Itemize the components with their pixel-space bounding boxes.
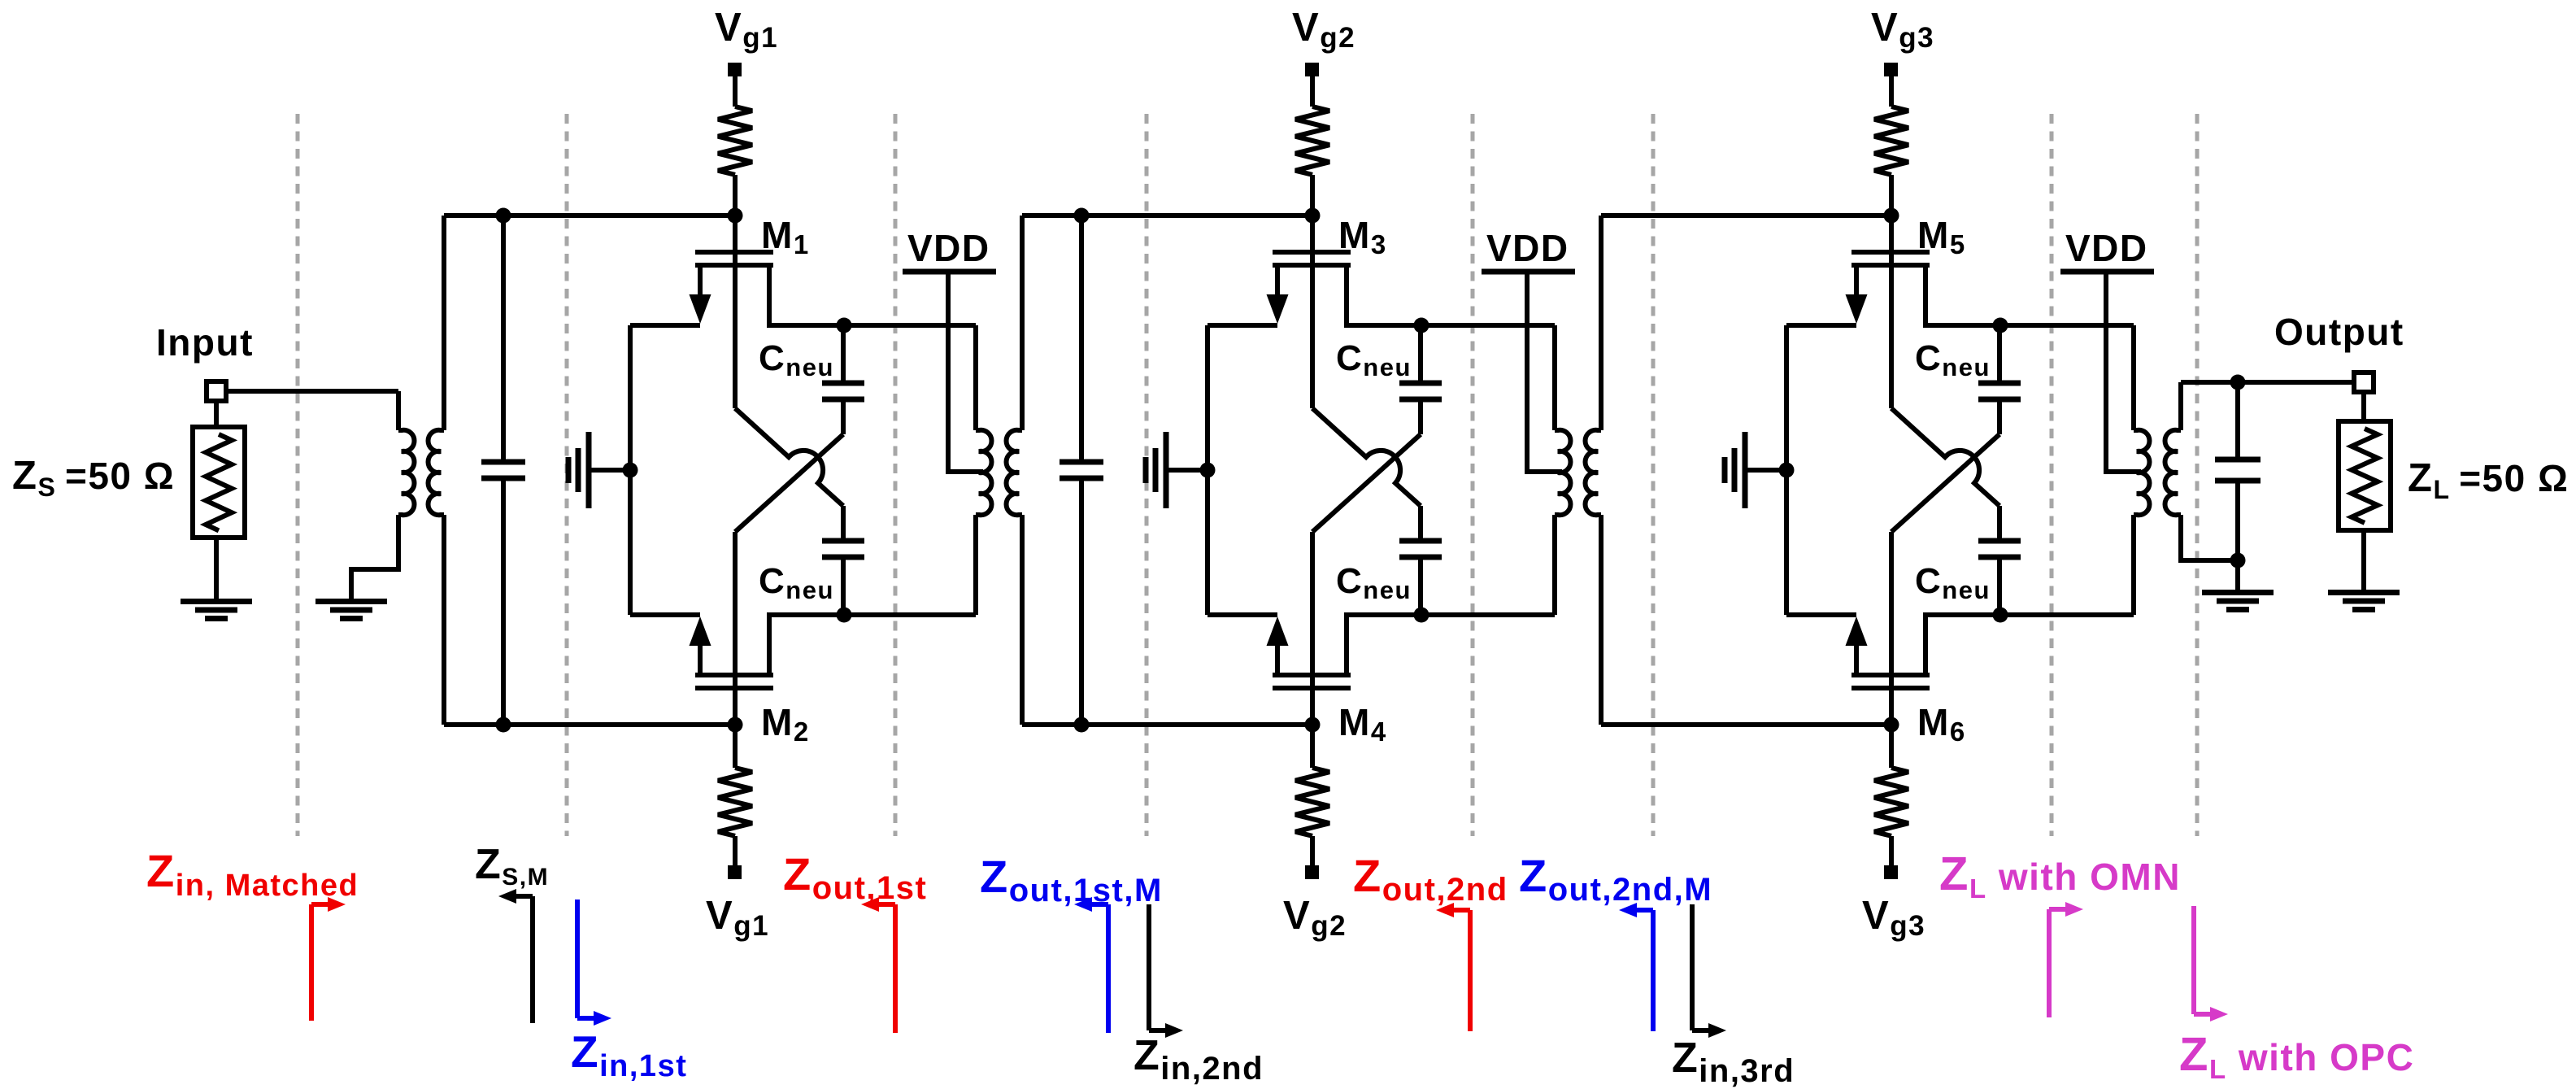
gate rail top stage 1 xyxy=(444,213,735,218)
Cneu top lower lead xyxy=(1418,399,1423,434)
wire Vg3 to resistor xyxy=(1889,76,1894,107)
transistor M3 gate line xyxy=(1310,216,1315,408)
Vg2 bottom terminal xyxy=(1305,865,1319,879)
gate rail bottom stage 2 xyxy=(444,722,735,727)
Vg2 top terminal xyxy=(1305,63,1319,76)
Vg1 top terminal xyxy=(728,63,742,76)
wire resistor to Vg1 bottom terminal xyxy=(733,836,738,865)
common source line stage 1/2 xyxy=(628,325,633,615)
transistor M6 source wire xyxy=(1786,612,1856,617)
transistor M6 drain stub xyxy=(1925,615,2000,675)
node source stage 1/2 xyxy=(623,463,638,478)
node gate bottom stage 2 xyxy=(728,717,743,733)
wire to AC ground xyxy=(1747,468,1786,473)
svg-text:VDD: VDD xyxy=(907,227,990,269)
arrow Zin,Matched xyxy=(309,904,314,1021)
gate bias resistor bottom xyxy=(1295,768,1329,836)
Cneu top feed xyxy=(1997,325,2002,383)
transistor M3 gate bar xyxy=(1273,250,1351,255)
arrow ZL with OMN xyxy=(2047,909,2052,1017)
transistor M5 drain stub xyxy=(1925,265,2000,325)
transistor M3 drain stub xyxy=(1347,265,1421,325)
Cneu bottom feed xyxy=(841,557,846,615)
ground below output cap xyxy=(2202,590,2274,595)
VDD bar xyxy=(903,269,996,275)
common source line stage 3/4 xyxy=(1205,325,1210,615)
common source line stage 5/6 xyxy=(1784,325,1789,615)
cross-couple diagonal from M1 gate with hop xyxy=(735,408,843,506)
input terminal xyxy=(207,381,226,401)
wire to AC ground xyxy=(1168,468,1207,473)
node gate top stage 1 xyxy=(728,208,743,224)
output shunt capacitor bottom lead xyxy=(2235,481,2240,560)
transformer 2 secondary coil xyxy=(1586,430,1601,515)
VDD feed wire xyxy=(2106,272,2141,472)
transistor M1 source wire xyxy=(630,323,700,328)
transformer 1 primary top wire xyxy=(973,325,978,430)
drain rail top stage 1 xyxy=(844,323,976,328)
transistor M6 source stub xyxy=(1854,644,1859,675)
transistor M5 source arrow xyxy=(1846,294,1868,324)
dashed reference plane 1 xyxy=(296,114,300,836)
VDD bar xyxy=(1482,269,1575,275)
wire output terminal to load xyxy=(2361,392,2366,421)
gate bias resistor bottom xyxy=(718,768,752,836)
node drain M5 xyxy=(1993,318,2008,333)
transformer 2 secondary top wire xyxy=(1599,216,1603,430)
wire resistor to gate rail xyxy=(733,175,738,216)
wire primary bottom jog xyxy=(351,515,398,600)
gate shunt capacitor wire top xyxy=(1079,216,1084,462)
output shunt capacitor top lead xyxy=(2235,382,2240,460)
transistor M2 drain stub xyxy=(769,615,844,675)
cross-couple diagonal to M2 gate xyxy=(735,434,843,532)
transistor M4 source stub xyxy=(1275,644,1280,675)
transistor M6 gate line xyxy=(1889,532,1894,725)
drain rail bottom stage 2 xyxy=(844,612,976,617)
transistor M5 gate line xyxy=(1889,216,1894,408)
transformer 3 primary coil xyxy=(2134,430,2149,515)
node cap bottom xyxy=(1074,717,1090,733)
Vg1 bottom terminal xyxy=(728,865,742,879)
svg-text:ZL =50 Ω: ZL =50 Ω xyxy=(2408,456,2569,504)
Cneu bottom feed xyxy=(1997,557,2002,615)
Cneu bottom upper lead xyxy=(841,506,846,541)
node source stage 3/4 xyxy=(1200,463,1216,478)
node gate top stage 5 xyxy=(1884,208,1899,224)
gate bias resistor top (stage 3) xyxy=(1295,107,1329,175)
capacitor Cneu top (stage 1) xyxy=(822,381,864,386)
output terminal xyxy=(2354,372,2374,392)
gate shunt capacitor wire bottom xyxy=(1079,478,1084,725)
Cneu bottom upper lead xyxy=(1997,506,2002,541)
arrow Zin,3rd xyxy=(1690,904,1695,1030)
output transformer secondary top wire xyxy=(2178,382,2183,430)
output shunt capacitor xyxy=(2215,457,2261,463)
transistor M1 source stub xyxy=(698,265,703,296)
input transformer secondary bottom wire xyxy=(442,515,446,725)
gate bias resistor bottom xyxy=(1874,768,1908,836)
arrow Zin,1st xyxy=(575,900,580,1018)
wire Vg2 to resistor xyxy=(1310,76,1315,107)
capacitor Cneu top (stage 5) xyxy=(1978,381,2021,386)
node gate top stage 3 xyxy=(1305,208,1321,224)
gate shunt capacitor xyxy=(481,460,525,465)
transistor M1 gate line xyxy=(733,216,738,408)
Cneu bottom feed xyxy=(1418,557,1423,615)
wire gate rail to bottom resistor xyxy=(1889,725,1894,768)
input transformer secondary top wire xyxy=(442,216,446,430)
transformer 2 secondary bottom wire xyxy=(1599,515,1603,725)
wire Vg1 to resistor xyxy=(733,76,738,107)
Cneu top lower lead xyxy=(841,399,846,434)
svg-text:Input: Input xyxy=(156,321,254,364)
output transformer secondary coil xyxy=(2165,430,2181,515)
gate bias resistor top (stage 1) xyxy=(718,107,752,175)
transistor M2 channel bar xyxy=(695,673,773,677)
wire ZL to ground xyxy=(2361,530,2366,591)
node cap top xyxy=(496,208,511,224)
gate rail top stage 5 xyxy=(1601,213,1891,218)
gate shunt capacitor wire bottom xyxy=(501,478,506,725)
output transformer secondary bottom wire xyxy=(2181,515,2238,560)
drain rail top stage 5 xyxy=(2000,323,2134,328)
output line xyxy=(2181,380,2354,385)
transistor M5 source wire xyxy=(1786,323,1856,328)
drain rail top stage 3 xyxy=(1421,323,1555,328)
node drain M3 xyxy=(1414,318,1429,333)
transistor M5 gate bar xyxy=(1851,250,1930,255)
svg-text:Output: Output xyxy=(2274,311,2404,353)
transformer 2 primary bottom wire xyxy=(1552,515,1557,615)
transistor M6 channel bar xyxy=(1851,673,1930,677)
node output cap bottom xyxy=(2230,553,2246,568)
AC ground stage 5/6 xyxy=(1743,432,1748,508)
node output cap top xyxy=(2230,375,2246,390)
Cneu top feed xyxy=(841,325,846,383)
transistor M4 channel bar xyxy=(1273,673,1351,677)
AC ground stage 3/4 xyxy=(1164,432,1169,508)
transistor M4 source wire xyxy=(1207,612,1277,617)
transistor M4 source arrow xyxy=(1267,616,1289,646)
drain rail bottom stage 4 xyxy=(1421,612,1555,617)
transformer 3 primary top wire xyxy=(2131,325,2136,430)
wire ZS to ground xyxy=(214,538,219,600)
arrow Zout,2nd,M xyxy=(1651,910,1656,1031)
node drain M6 xyxy=(1993,608,2008,623)
VDD bar xyxy=(2060,269,2154,275)
arrow ZS,M xyxy=(530,896,535,1023)
transistor M4 gate bar xyxy=(1273,686,1351,690)
ground below ZL xyxy=(2328,590,2400,595)
transistor M1 gate bar xyxy=(695,250,773,255)
source resistor ZS box xyxy=(193,427,245,538)
transistor M2 source stub xyxy=(698,644,703,675)
transistor M3 channel bar xyxy=(1273,263,1351,268)
transistor M5 channel bar xyxy=(1851,263,1930,268)
capacitor Cneu bottom (stage 2) xyxy=(822,538,864,544)
load resistor ZL box xyxy=(2339,421,2391,530)
arrow Zout,1st xyxy=(893,904,898,1033)
source resistor ZS zigzag xyxy=(206,434,232,530)
drain rail bottom stage 6 xyxy=(2000,612,2134,617)
transformer 1 primary coil xyxy=(976,430,991,515)
input transformer primary coil xyxy=(398,430,414,515)
transistor M2 source arrow xyxy=(690,616,711,646)
input transformer secondary coil xyxy=(429,430,444,515)
transistor M5 source stub xyxy=(1854,265,1859,296)
transformer 1 secondary bottom wire xyxy=(1020,515,1025,725)
gate rail bottom stage 6 xyxy=(1601,722,1891,727)
Vg3 bottom terminal xyxy=(1884,865,1898,879)
wire input to transformer xyxy=(226,389,398,394)
gate shunt capacitor xyxy=(1060,460,1103,465)
node gate bottom stage 6 xyxy=(1884,717,1899,733)
transistor M1 source arrow xyxy=(690,294,711,324)
node source stage 5/6 xyxy=(1779,463,1795,478)
cross-couple diagonal from M5 gate with hop xyxy=(1891,408,1999,506)
VDD feed wire xyxy=(948,272,983,472)
node drain M4 xyxy=(1414,608,1429,623)
node cap top xyxy=(1074,208,1090,224)
transistor M2 gate bar xyxy=(695,686,773,690)
Cneu bottom upper lead xyxy=(1418,506,1423,541)
wire resistor to Vg3 bottom terminal xyxy=(1889,836,1894,865)
transistor M3 source wire xyxy=(1207,323,1277,328)
ground below ZS xyxy=(181,599,252,604)
transistor M6 gate bar xyxy=(1851,686,1930,690)
wire gate rail to bottom resistor xyxy=(1310,725,1315,768)
dashed reference plane 6 xyxy=(1651,114,1656,836)
Cneu top lower lead xyxy=(1997,399,2002,434)
dashed reference plane 5 xyxy=(1471,114,1475,836)
transistor M1 channel bar xyxy=(695,263,773,268)
capacitor Cneu bottom (stage 4) xyxy=(1399,538,1442,544)
gate shunt capacitor wire top xyxy=(501,216,506,462)
transistor M4 drain stub xyxy=(1347,615,1421,675)
arrow ZL with OPC xyxy=(2191,906,2196,1014)
Vg3 top terminal xyxy=(1884,63,1898,76)
arrow Zout,1st,M xyxy=(1106,904,1111,1033)
VDD feed wire xyxy=(1527,272,1562,472)
transformer 2 primary top wire xyxy=(1552,325,1557,430)
gate rail bottom stage 4 xyxy=(1022,722,1312,727)
AC ground stage 1/2 xyxy=(586,432,592,508)
transistor M6 source arrow xyxy=(1846,616,1868,646)
wire resistor to gate rail xyxy=(1889,175,1894,216)
dashed reference plane 4 xyxy=(1145,114,1149,836)
wire resistor to gate rail xyxy=(1310,175,1315,216)
capacitor Cneu bottom (stage 6) xyxy=(1978,538,2021,544)
transistor M3 source stub xyxy=(1275,265,1280,296)
cross-couple diagonal to M4 gate xyxy=(1312,434,1421,532)
transistor M2 gate line xyxy=(733,532,738,725)
arrow Zout,2nd xyxy=(1468,910,1473,1031)
node cap bottom xyxy=(496,717,511,733)
transistor M2 source wire xyxy=(630,612,700,617)
node drain M1 xyxy=(837,318,852,333)
dashed reference plane 8 xyxy=(2195,114,2200,836)
gate bias resistor top (stage 5) xyxy=(1874,107,1908,175)
svg-text:VDD: VDD xyxy=(1486,227,1569,269)
transistor M3 source arrow xyxy=(1267,294,1289,324)
cross-couple diagonal from M3 gate with hop xyxy=(1312,408,1421,506)
wire cap to ground xyxy=(2235,560,2240,591)
svg-text:VDD: VDD xyxy=(2065,227,2148,269)
transformer 3 primary bottom wire xyxy=(2131,515,2136,615)
dashed reference plane 2 xyxy=(565,114,569,836)
node drain M2 xyxy=(837,608,852,623)
dashed reference plane 7 xyxy=(2050,114,2054,836)
transistor M1 drain stub xyxy=(769,265,844,325)
arrow Zin,2nd xyxy=(1147,904,1151,1030)
ground below input primary xyxy=(315,599,387,604)
transformer 1 primary bottom wire xyxy=(973,515,978,615)
transformer 1 secondary top wire xyxy=(1020,216,1025,430)
wire down to input transformer primary xyxy=(396,391,401,430)
wire gate rail to bottom resistor xyxy=(733,725,738,768)
wire resistor to Vg2 bottom terminal xyxy=(1310,836,1315,865)
wire to AC ground xyxy=(591,468,630,473)
Cneu top feed xyxy=(1418,325,1423,383)
dashed reference plane 3 xyxy=(894,114,898,836)
cross-couple diagonal to M6 gate xyxy=(1891,434,1999,532)
capacitor Cneu top (stage 3) xyxy=(1399,381,1442,386)
transistor M4 gate line xyxy=(1310,532,1315,725)
transformer 2 primary coil xyxy=(1555,430,1570,515)
load resistor ZL zigzag xyxy=(2352,429,2378,523)
svg-text:ZS =50 Ω: ZS =50 Ω xyxy=(12,454,175,502)
wire input to source resistor xyxy=(214,401,219,427)
node gate bottom stage 4 xyxy=(1305,717,1321,733)
gate rail top stage 3 xyxy=(1022,213,1312,218)
transformer 1 secondary coil xyxy=(1007,430,1022,515)
